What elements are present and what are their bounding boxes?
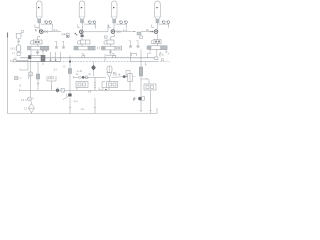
valve under exchanger A <box>36 50 38 55</box>
riser x141 from C <box>140 50 142 68</box>
wire N-2 down <box>18 52 20 53</box>
vent valve VV3 <box>129 40 132 48</box>
small box fitting <box>66 33 69 35</box>
header pipe lower <box>16 61 60 63</box>
cross tick on x38 <box>37 82 39 84</box>
wire V2 to pump P2 <box>81 23 83 32</box>
riser x51 <box>50 81 52 91</box>
riser x95 <box>94 77 96 90</box>
V3 instrument header wire <box>116 24 127 28</box>
V1 instrument header wire <box>41 24 53 28</box>
wire valve to N-2 <box>18 42 20 45</box>
exchanger A inlet trapezoid <box>30 40 33 44</box>
wire V3 to pump P3 <box>113 23 115 32</box>
header pipe upper <box>20 57 157 59</box>
svg-text:h1: h1 <box>10 59 14 63</box>
vessel N-2 <box>17 45 21 52</box>
V3 vent mark <box>109 25 111 28</box>
vertical x105 <box>104 54 106 62</box>
small box on header end <box>155 57 158 60</box>
box X on riser <box>29 72 32 76</box>
instrument I4b <box>166 21 169 25</box>
svg-text:13.2: 13.2 <box>21 98 27 102</box>
coupling between B and D <box>98 47 100 50</box>
exchanger B stem low <box>81 44 83 46</box>
box under N-2 <box>17 53 20 56</box>
wire y55.3 under D <box>106 54 116 56</box>
riser x38 down <box>37 62 39 91</box>
pumphouse box 2 <box>107 82 118 88</box>
L tick under C <box>160 52 162 55</box>
branch arrow to x149 <box>141 78 147 80</box>
wire V4 to pump P4 <box>156 23 158 32</box>
wire P4 discharge left <box>141 31 154 33</box>
valve on P1 line <box>45 31 48 33</box>
bracket fitting <box>131 53 136 56</box>
exchanger D body <box>102 46 122 50</box>
gray box on x38 <box>36 74 39 79</box>
instrument I3b <box>124 21 127 25</box>
exchanger B top boxes <box>81 40 91 44</box>
svg-text:b-i: b-i <box>81 107 85 111</box>
svg-text:1-4: 1-4 <box>123 28 128 32</box>
small valve <box>18 41 20 43</box>
vessel V1 <box>36 1 42 23</box>
exchanger D top rect <box>107 40 114 44</box>
svg-text:1.1: 1.1 <box>12 51 16 55</box>
vertical x130.4 <box>129 52 131 62</box>
wire y70 <box>20 69 28 71</box>
pumphouse box 1 <box>76 82 88 88</box>
box on line <box>61 89 64 92</box>
svg-text:1p: 1p <box>76 72 80 76</box>
pump P2 <box>80 30 84 34</box>
dark valve on line <box>56 89 59 92</box>
exchanger D inlet trapezoid <box>104 40 107 44</box>
wire y55.3 <box>30 54 42 56</box>
fitting dark circle <box>123 75 126 78</box>
left main vertical pipe <box>7 33 9 114</box>
small mark <box>146 47 148 49</box>
flag box right <box>140 36 143 38</box>
junction dark block <box>28 55 31 59</box>
wire V1 to pump P1 <box>38 23 40 32</box>
vent valve VV2 <box>62 41 65 49</box>
exchanger B inlet trapezoid <box>78 40 81 44</box>
left riser x28 <box>27 58 29 70</box>
instrument I4a <box>162 21 165 25</box>
dash fitting <box>133 76 136 78</box>
small arrow <box>20 84 22 87</box>
pump P3 <box>111 30 115 34</box>
riser x70 down <box>69 56 71 94</box>
drop D1 <box>50 52 52 61</box>
fitting box mid <box>82 76 85 79</box>
small gray tick <box>133 98 135 101</box>
right tick2 <box>160 53 162 56</box>
right header ticks <box>148 54 150 58</box>
exchanger C top rect <box>154 40 161 44</box>
rounded unit <box>107 66 112 73</box>
svg-text:L4: L4 <box>88 90 92 94</box>
tall gray box <box>139 67 143 76</box>
V4 vent mark <box>152 25 154 28</box>
exchanger C inlet trapezoid <box>151 40 154 44</box>
riser x95 bottom <box>94 98 96 114</box>
wire cup down <box>18 39 20 41</box>
partial box left <box>102 82 106 88</box>
dash fitting <box>133 31 136 33</box>
dark blob on x141 <box>138 97 141 100</box>
left bottom box X <box>15 77 18 80</box>
cup separator flag <box>22 31 24 33</box>
drop D2 <box>55 52 57 61</box>
stub pumphouse2 right <box>108 88 110 91</box>
exchanger A top rect <box>33 40 42 44</box>
instrument I3a <box>119 21 122 25</box>
drops under C <box>150 50 166 58</box>
exchanger A stem+flag <box>38 36 40 40</box>
wire P3 discharge <box>115 31 132 33</box>
wire V4 down to exchanger C <box>156 34 158 40</box>
wire P3 down to D <box>111 32 114 40</box>
instrument I1a <box>44 21 47 25</box>
riser x130 <box>129 82 131 91</box>
exchanger B dark top blob <box>81 35 84 38</box>
dark diamond valve <box>93 62 95 65</box>
svg-text:1-p: 1-p <box>113 72 117 76</box>
pump P4 <box>154 30 158 34</box>
V4 instrument header wire <box>159 24 169 28</box>
vent valve VV4 <box>136 40 139 48</box>
riser valve S2 <box>112 54 115 58</box>
valve on P3 line <box>117 31 120 33</box>
fitting circle b <box>85 76 88 79</box>
riser x141 lower <box>140 76 142 112</box>
riser x70 bottom <box>69 98 71 114</box>
wire h-box <box>16 60 28 62</box>
vessel V2 <box>79 1 85 23</box>
svg-text:1-o: 1-o <box>74 99 79 103</box>
vessel V3 <box>111 1 117 23</box>
vent valve VV1 <box>55 41 58 49</box>
svg-text:2-l: 2-l <box>54 67 58 71</box>
wire blob diag <box>63 97 68 100</box>
open-top box <box>47 76 56 81</box>
V2 vent mark <box>78 25 80 28</box>
small triangle fitting <box>126 76 127 78</box>
exchanger A body <box>28 46 49 50</box>
riser x30.5 <box>30 59 32 97</box>
fitting marks <box>62 33 66 35</box>
tick end <box>66 94 68 97</box>
exchanger B body <box>74 46 95 50</box>
stub pumphouse2 left <box>102 88 104 91</box>
diamond symbol <box>29 104 35 113</box>
instrument I2a <box>88 21 91 25</box>
wire P2 discharge to V3 riser <box>83 25 108 32</box>
instrument I2b <box>93 21 96 25</box>
pumphouse box 3 <box>144 84 156 90</box>
exchanger B stem <box>81 32 83 40</box>
bottom right fittings <box>134 97 137 100</box>
V1 vent mark <box>35 25 39 28</box>
X valve under D <box>110 50 112 55</box>
pump P1 <box>40 30 44 34</box>
stub pumphouse1 <box>76 88 78 91</box>
instrument I1b <box>48 21 51 25</box>
exchanger C stem low <box>157 44 159 46</box>
dark tick on line <box>105 89 106 90</box>
tall box fitting <box>128 73 132 81</box>
exchanger C body <box>148 46 168 50</box>
bottom main line <box>20 89 136 91</box>
manifold dark box <box>41 55 45 61</box>
manifold stem <box>42 50 44 55</box>
gray box fitting <box>137 32 141 35</box>
junction tick x70 <box>69 61 71 63</box>
cup separator <box>16 33 21 39</box>
dark blob bottom x70 <box>68 94 71 97</box>
exchanger D flag <box>104 36 107 38</box>
tick right of x141 <box>145 62 147 65</box>
cross tick <box>118 74 120 76</box>
top fitting line <box>74 76 107 78</box>
riser valve S1 <box>82 54 85 58</box>
wire P1 discharge <box>43 31 61 33</box>
wire x31 <box>30 48 32 59</box>
bottom rail <box>8 113 158 115</box>
vessel V4 <box>155 1 161 23</box>
tick right <box>29 76 31 79</box>
V2 instrument header wire <box>84 24 96 28</box>
svg-text:N-2: N-2 <box>11 47 16 51</box>
tick x99 <box>99 87 102 89</box>
drop D3 <box>60 52 62 62</box>
gray box on x70 <box>68 69 71 74</box>
nozzle stubs under A <box>42 50 46 51</box>
flag above vents <box>66 35 69 37</box>
relief symbol circle <box>28 97 32 101</box>
svg-text:1b: 1b <box>146 28 150 32</box>
fitting circle a <box>79 76 82 79</box>
svg-text:2-1: 2-1 <box>54 28 59 32</box>
small square unit <box>126 71 130 76</box>
